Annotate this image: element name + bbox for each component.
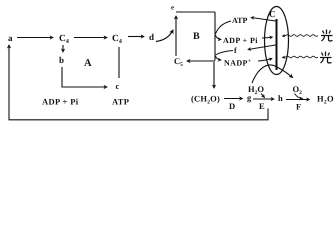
light wavy arrow 2 [282, 56, 318, 58]
svg-text:g: g [247, 93, 252, 103]
svg-text:h: h [278, 93, 283, 103]
svg-text:ADP + Pi: ADP + Pi [223, 36, 258, 45]
box B right edge [214, 12, 216, 61]
wire C4a to C4b [74, 37, 107, 39]
svg-text:a: a [8, 33, 13, 43]
wire C4a down to b [62, 45, 64, 52]
wire C4b to d [128, 36, 144, 38]
wire O2 into F arrow [295, 94, 303, 99]
svg-text:D: D [229, 101, 235, 111]
wire B to C5 [187, 60, 215, 62]
light label 1 [321, 30, 333, 42]
wire E arrow [253, 98, 274, 100]
wire thylakoid to ATP [251, 18, 276, 22]
svg-text:ATP: ATP [112, 97, 129, 107]
svg-text:ATP: ATP [232, 16, 248, 25]
wire NADP+ back to thylakoid [258, 59, 272, 62]
svg-text:A: A [84, 58, 92, 69]
svg-text:C4: C4 [112, 34, 122, 45]
svg-text:C: C [269, 9, 276, 19]
wire D arrow [224, 98, 243, 100]
wire H2O down to E arrow [261, 94, 265, 98]
svg-text:B: B [193, 31, 200, 42]
wire thylakoid to f [248, 45, 276, 50]
wire ATP into box B curve [216, 21, 232, 34]
svg-text:f: f [234, 46, 237, 55]
wire B down to CH2O [213, 62, 215, 88]
svg-text:C4: C4 [59, 34, 69, 45]
chloroplast ellipse [265, 7, 289, 75]
light label 2 [320, 52, 332, 64]
wire b down and right to c [62, 67, 107, 87]
wire feedback loop from E back up to a [9, 45, 268, 120]
svg-text:e: e [171, 4, 174, 12]
wire H2O to O2 swoosh through chloroplast bottom [252, 65, 293, 83]
svg-text:ADP + Pi: ADP + Pi [42, 97, 79, 107]
svg-text:c: c [116, 81, 120, 91]
svg-text:F: F [296, 102, 301, 112]
wire C4b down to c [118, 47, 120, 78]
thylakoid bar [276, 19, 278, 70]
svg-text:(CH2O): (CH2O) [191, 94, 220, 106]
svg-text:NADP+: NADP+ [224, 59, 251, 68]
svg-text:E: E [259, 101, 265, 111]
wire C5 up to e (box left arrow) [175, 16, 177, 56]
wire ADP+Pi back to thylakoid [262, 37, 273, 38]
wire a to C4a [17, 37, 53, 39]
svg-text:d: d [149, 32, 154, 42]
wire box B out to ADP+Pi [216, 35, 222, 40]
svg-text:b: b [59, 55, 64, 65]
svg-text:H2O: H2O [317, 94, 334, 106]
svg-text:O2: O2 [293, 84, 303, 96]
wire f into box B curve [216, 51, 234, 56]
svg-text:C5: C5 [174, 56, 183, 68]
light wavy arrow 1 [282, 35, 318, 37]
wire F arrow [286, 99, 310, 101]
wire box B out to NADP+ [216, 56, 222, 60]
wire d curve into box B left edge [156, 30, 173, 42]
box B top edge [176, 11, 215, 13]
